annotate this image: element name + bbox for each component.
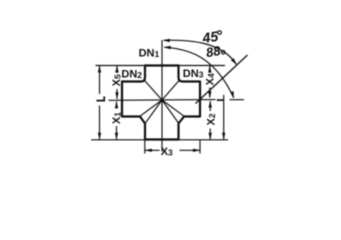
svg-text:DN1: DN1 bbox=[139, 47, 160, 59]
top-right extension line bbox=[179, 65, 226, 67]
45 degree arc bbox=[164, 40, 237, 64]
L arrow down bbox=[98, 133, 101, 140]
X3 right extension line (branch end face extended) bbox=[199, 141, 201, 154]
dimension X5 line bbox=[116, 66, 118, 74]
X3 left extension line bbox=[144, 141, 146, 154]
l arrow down bbox=[222, 133, 225, 140]
X4 arrow down bbox=[208, 91, 211, 98]
88 degree arc bbox=[164, 47, 233, 98]
svg-text:X3: X3 bbox=[161, 146, 173, 158]
flow line to top-left corner bbox=[144, 80, 162, 100]
X3 arrow left bbox=[145, 149, 152, 152]
horizontal centerline bbox=[109, 99, 216, 102]
88 arc arrow at centerline bbox=[164, 46, 171, 50]
45 degree branch axis line bbox=[196, 55, 248, 104]
dimension X2 line bbox=[209, 101, 211, 111]
flow line to top-right corner bbox=[162, 80, 180, 100]
svg-text:DN3: DN3 bbox=[183, 68, 204, 80]
dimension X1 line bbox=[116, 102, 118, 109]
X3 arrow right bbox=[193, 149, 200, 152]
bottom-right extension line bbox=[179, 139, 229, 141]
dimension L line upper bbox=[99, 66, 101, 95]
svg-text:DN2: DN2 bbox=[121, 68, 142, 80]
L arrow up bbox=[98, 66, 101, 73]
svg-text:X2: X2 bbox=[205, 113, 217, 125]
45 arc arrow at centerline bbox=[163, 39, 170, 43]
X5 arrow down bbox=[115, 92, 118, 99]
flow lines to bottom-left chamfer bbox=[140, 100, 162, 116]
degree mark of 45 bbox=[218, 31, 222, 35]
degree mark of 88 bbox=[222, 51, 225, 54]
X2 arrow down bbox=[209, 133, 212, 140]
svg-text:88: 88 bbox=[205, 43, 223, 60]
X1 arrow up bbox=[115, 101, 118, 108]
X1 arrow down bbox=[115, 133, 118, 140]
label L (rotated) bbox=[96, 96, 104, 100]
top-left extension line bbox=[96, 65, 146, 67]
X5 arrow up bbox=[115, 66, 118, 73]
dimension l line (far right) bbox=[223, 95, 225, 140]
flow lines to bottom-right chamfer bbox=[162, 100, 184, 116]
svg-text:X4: X4 bbox=[205, 73, 217, 85]
dimension X3 line bbox=[145, 149, 160, 151]
vertical centerline bbox=[161, 40, 163, 152]
fitting body outline bbox=[122, 66, 200, 140]
X4 arrow up bbox=[208, 66, 211, 73]
X2 arrow up bbox=[209, 101, 212, 108]
bottom-left extension line bbox=[91, 139, 145, 141]
dimension X4 line bbox=[209, 66, 211, 74]
svg-text:X1: X1 bbox=[111, 112, 123, 124]
45 arc arrow at branch line bbox=[231, 58, 237, 65]
label l (rotated L) bbox=[217, 99, 224, 101]
dimension L line lower bbox=[99, 106, 101, 140]
88 arc arrow at horizontal centerline bbox=[230, 91, 234, 98]
horizontal centerline right piece bbox=[230, 99, 245, 101]
